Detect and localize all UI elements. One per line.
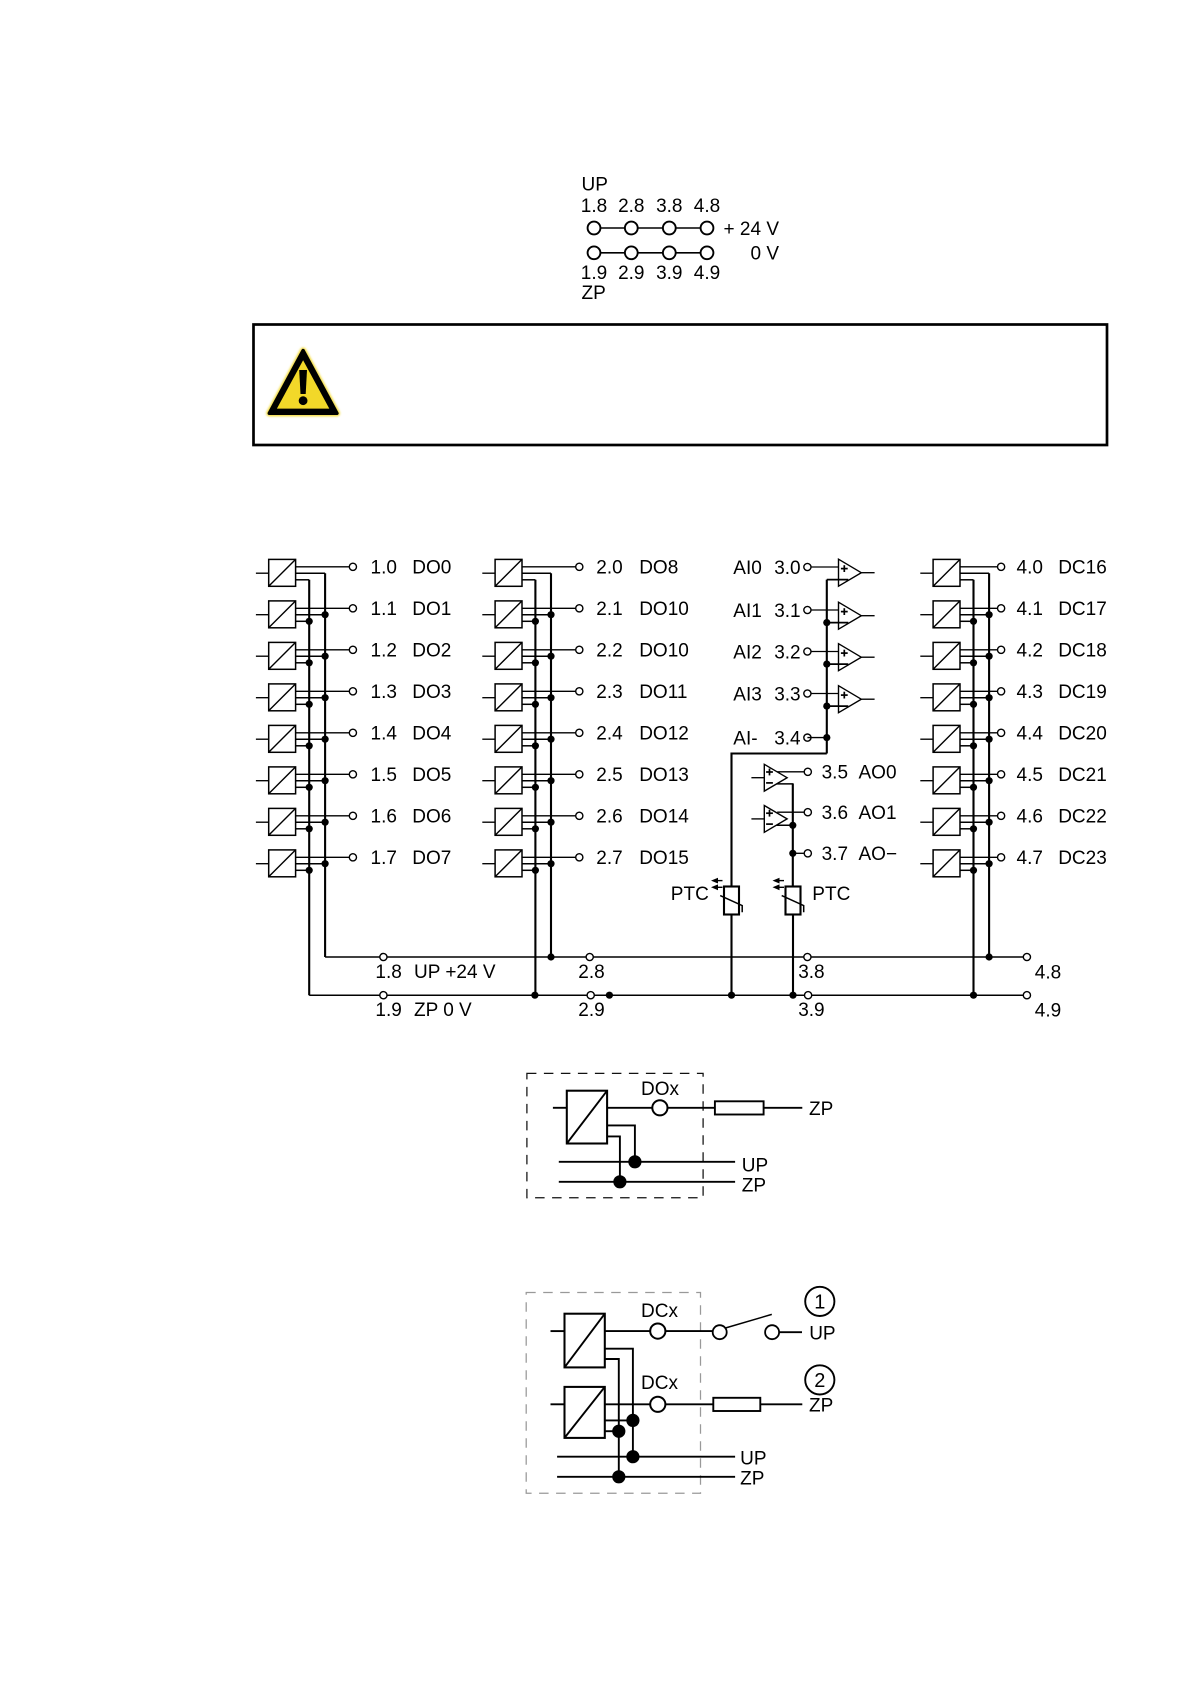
svg-text:UP: UP <box>582 175 608 196</box>
svg-text:ZP: ZP <box>740 1469 764 1490</box>
svg-text:UP: UP <box>740 1448 766 1469</box>
svg-text:DO8: DO8 <box>639 558 678 579</box>
svg-text:DO15: DO15 <box>639 848 689 869</box>
svg-text:1.7: 1.7 <box>371 848 397 869</box>
svg-text:DO10: DO10 <box>639 641 689 662</box>
svg-text:DO7: DO7 <box>412 848 451 869</box>
svg-text:2.9: 2.9 <box>618 263 644 284</box>
svg-text:2: 2 <box>814 1370 825 1392</box>
svg-text:3.7: 3.7 <box>822 844 848 865</box>
svg-text:AI1: AI1 <box>733 601 762 622</box>
svg-text:AO1: AO1 <box>859 803 897 824</box>
svg-text:3.8: 3.8 <box>656 196 682 217</box>
svg-text:1.6: 1.6 <box>371 807 397 828</box>
svg-text:ZP 0 V: ZP 0 V <box>414 1000 472 1021</box>
svg-text:DC16: DC16 <box>1058 558 1107 579</box>
svg-text:3.4: 3.4 <box>774 729 801 750</box>
svg-text:DO14: DO14 <box>639 807 689 828</box>
svg-text:3.5: 3.5 <box>822 763 848 784</box>
svg-text:AI2: AI2 <box>733 642 762 663</box>
svg-text:AI0: AI0 <box>733 558 762 579</box>
svg-text:1.4: 1.4 <box>371 724 398 745</box>
svg-text:AI3: AI3 <box>733 684 762 705</box>
svg-text:1.8: 1.8 <box>375 962 401 983</box>
svg-text:DO4: DO4 <box>412 724 452 745</box>
svg-text:4.7: 4.7 <box>1017 848 1043 869</box>
svg-text:DO11: DO11 <box>639 682 687 703</box>
svg-text:4.8: 4.8 <box>1035 962 1061 983</box>
svg-text:4.5: 4.5 <box>1017 765 1043 786</box>
svg-text:2.4: 2.4 <box>596 724 623 745</box>
svg-text:DC17: DC17 <box>1058 599 1107 620</box>
svg-text:3.0: 3.0 <box>774 558 800 579</box>
svg-text:2.0: 2.0 <box>596 558 622 579</box>
svg-text:DO1: DO1 <box>412 599 451 620</box>
svg-text:UP: UP <box>809 1323 835 1344</box>
svg-text:PTC: PTC <box>812 884 850 905</box>
svg-text:1.9: 1.9 <box>375 1000 401 1021</box>
svg-text:2.3: 2.3 <box>596 682 622 703</box>
svg-text:DCx: DCx <box>641 1301 678 1322</box>
svg-text:0 V: 0 V <box>750 244 779 265</box>
svg-text:4.9: 4.9 <box>1035 1001 1061 1022</box>
svg-text:PTC: PTC <box>671 884 709 905</box>
svg-text:3.1: 3.1 <box>774 601 800 622</box>
svg-text:2.6: 2.6 <box>596 807 622 828</box>
svg-text:DO10: DO10 <box>639 599 689 620</box>
svg-text:DC22: DC22 <box>1058 807 1107 828</box>
svg-text:DO12: DO12 <box>639 724 689 745</box>
svg-text:3.9: 3.9 <box>798 1000 824 1021</box>
svg-text:3.2: 3.2 <box>774 642 800 663</box>
svg-text:4.3: 4.3 <box>1017 682 1043 703</box>
svg-text:3.6: 3.6 <box>822 803 848 824</box>
svg-text:1.8: 1.8 <box>581 196 607 217</box>
svg-text:ZP: ZP <box>809 1099 833 1120</box>
svg-text:DOx: DOx <box>641 1079 680 1100</box>
svg-text:4.1: 4.1 <box>1017 599 1043 620</box>
svg-text:AO−: AO− <box>859 844 898 865</box>
svg-text:2.5: 2.5 <box>596 765 622 786</box>
svg-text:DO6: DO6 <box>412 807 451 828</box>
svg-text:DO0: DO0 <box>412 558 451 579</box>
svg-text:DO2: DO2 <box>412 641 451 662</box>
svg-text:2.8: 2.8 <box>618 196 644 217</box>
svg-text:DC21: DC21 <box>1058 765 1107 786</box>
svg-text:DCx: DCx <box>641 1373 678 1394</box>
svg-text:4.0: 4.0 <box>1017 558 1043 579</box>
svg-text:2.2: 2.2 <box>596 641 622 662</box>
svg-text:4.9: 4.9 <box>694 263 720 284</box>
svg-text:2.7: 2.7 <box>596 848 622 869</box>
svg-text:+ 24 V: + 24 V <box>724 219 780 240</box>
svg-text:4.4: 4.4 <box>1017 724 1044 745</box>
svg-text:DC18: DC18 <box>1058 641 1107 662</box>
svg-text:3.8: 3.8 <box>798 962 824 983</box>
svg-text:2.9: 2.9 <box>578 1000 604 1021</box>
svg-text:AI-: AI- <box>733 729 757 750</box>
svg-text:4.6: 4.6 <box>1017 807 1043 828</box>
svg-text:DC20: DC20 <box>1058 724 1107 745</box>
svg-text:DC19: DC19 <box>1058 682 1107 703</box>
svg-text:ZP: ZP <box>742 1176 766 1197</box>
svg-text:1.2: 1.2 <box>371 641 397 662</box>
svg-text:UP +24 V: UP +24 V <box>414 962 496 983</box>
svg-text:2.1: 2.1 <box>596 599 622 620</box>
svg-text:ZP: ZP <box>809 1395 833 1416</box>
svg-text:4.8: 4.8 <box>694 196 720 217</box>
svg-text:1.3: 1.3 <box>371 682 397 703</box>
svg-text:DC23: DC23 <box>1058 848 1107 869</box>
svg-text:3.9: 3.9 <box>656 263 682 284</box>
svg-text:3.3: 3.3 <box>774 684 800 705</box>
svg-text:UP: UP <box>742 1156 768 1177</box>
svg-text:ZP: ZP <box>582 283 606 304</box>
svg-text:AO0: AO0 <box>859 763 897 784</box>
svg-text:1.1: 1.1 <box>371 599 397 620</box>
svg-text:DO3: DO3 <box>412 682 451 703</box>
svg-text:DO13: DO13 <box>639 765 689 786</box>
svg-text:DO5: DO5 <box>412 765 451 786</box>
svg-text:1.9: 1.9 <box>581 263 607 284</box>
svg-text:1.0: 1.0 <box>371 558 397 579</box>
svg-text:2.8: 2.8 <box>578 962 604 983</box>
svg-text:1.5: 1.5 <box>371 765 397 786</box>
svg-text:4.2: 4.2 <box>1017 641 1043 662</box>
svg-text:1: 1 <box>814 1292 825 1314</box>
